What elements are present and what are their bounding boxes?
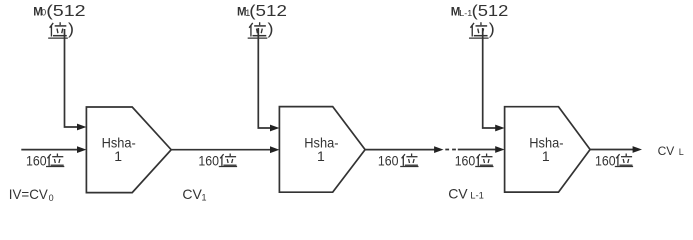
svg-text:L: L	[679, 147, 684, 157]
svg-text:): )	[68, 21, 74, 38]
svg-text:CV: CV	[182, 186, 202, 202]
svg-text:160: 160	[455, 152, 476, 168]
svg-text:): )	[489, 21, 495, 38]
svg-text:(512: (512	[472, 2, 509, 19]
svg-text:CV: CV	[448, 186, 468, 202]
svg-text:L-1: L-1	[470, 191, 484, 202]
svg-text:1: 1	[317, 148, 325, 164]
svg-text:IV=CV: IV=CV	[9, 186, 49, 202]
svg-text:160: 160	[595, 152, 616, 168]
svg-text:CV: CV	[658, 144, 675, 158]
svg-text:160: 160	[26, 152, 47, 168]
svg-text:160: 160	[378, 152, 399, 168]
svg-text:): )	[268, 21, 274, 38]
svg-text:1: 1	[114, 148, 122, 164]
svg-text:1: 1	[202, 193, 207, 203]
svg-text:(512: (512	[46, 2, 85, 19]
svg-text:160: 160	[198, 152, 219, 168]
svg-text:0: 0	[49, 193, 54, 203]
svg-text:(512: (512	[249, 1, 287, 19]
svg-text:1: 1	[542, 148, 550, 164]
svg-text:L-1: L-1	[459, 8, 472, 18]
